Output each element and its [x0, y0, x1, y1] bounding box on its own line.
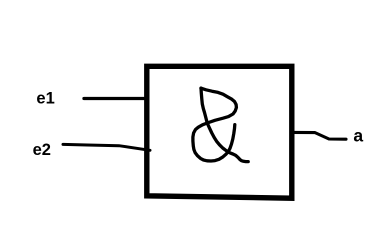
svg-text:a: a: [353, 126, 363, 146]
svg-text:e2: e2: [33, 141, 51, 159]
svg-text:e1: e1: [36, 90, 54, 108]
